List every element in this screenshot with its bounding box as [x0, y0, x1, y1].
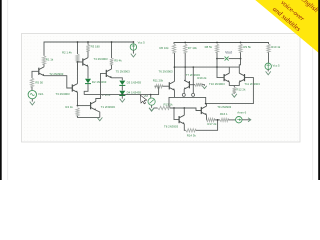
node R7 wire crossing — [184, 66, 186, 68]
wire R12 to ground — [233, 92, 235, 95]
wire T2 emitter to T3 base — [44, 76, 72, 88]
label Vin1 — [38, 92, 44, 96]
wire T8 base drop — [174, 108, 179, 120]
svg-text:T10 2N3903: T10 2N3903 — [209, 82, 225, 86]
resistor R7 — [184, 44, 187, 53]
wire R2 bottom to T3 collector — [77, 62, 79, 70]
right faint app edge — [311, 0, 314, 180]
wire R8 to T10 collector — [217, 59, 229, 74]
resistor R19 horizontal — [195, 83, 202, 86]
label R5 50 — [35, 81, 43, 85]
source Vcc2 — [265, 63, 271, 69]
svg-text:Amm 6: Amm 6 — [237, 111, 246, 115]
voltmeter VM1 — [148, 98, 155, 105]
svg-text:R16 1: R16 1 — [220, 112, 228, 116]
wire T4 base — [78, 61, 83, 63]
label net Vin1 mid — [102, 93, 111, 97]
node rail-R3 — [87, 41, 89, 43]
wire bias up to R11 — [151, 86, 159, 94]
transistor T10 — [224, 73, 229, 82]
label T8 2N3903 — [164, 125, 178, 129]
svg-text:R12 2k: R12 2k — [236, 88, 246, 92]
transistor T5 — [106, 69, 111, 78]
wire T11 emitter join — [234, 82, 239, 85]
node rail-R7 — [184, 42, 186, 44]
wire R9 to T11 collector — [239, 59, 240, 74]
wire rail to R5b — [111, 42, 113, 58]
label Amm 6 — [237, 111, 246, 115]
wire VM drop — [150, 95, 152, 98]
right black bar — [318, 0, 320, 180]
wire net to bubble B — [192, 67, 194, 93]
probe X Vout — [225, 57, 229, 61]
wire ammeter output arrow — [242, 119, 250, 121]
wire D3 to D4 — [121, 86, 123, 91]
wire R13 to T8/T9 — [170, 108, 201, 111]
label Vout — [225, 50, 232, 54]
label T6 2N3903 — [159, 69, 173, 73]
label T9 2N3903 — [217, 105, 231, 109]
ground below R19 — [202, 86, 206, 89]
wire R5 to Vin1 — [31, 87, 33, 90]
label T5 2N3903 — [116, 70, 130, 74]
resistor R11 horizontal — [155, 85, 163, 88]
resistor R2 — [76, 54, 79, 62]
wire T7 base to R19 — [189, 84, 195, 86]
wire T2 base to R5 — [32, 71, 39, 78]
label R4 1k — [65, 105, 73, 109]
label T4 2N3903 — [94, 57, 108, 61]
svg-text:T9 2N3903: T9 2N3903 — [217, 105, 231, 109]
transistor T3 — [72, 84, 77, 93]
resistor R1 — [42, 56, 45, 65]
resistor R6 — [172, 44, 175, 53]
label R17 2k — [207, 122, 217, 126]
label R10 1k — [271, 45, 281, 49]
left faint app edge — [6, 0, 9, 180]
page background — [0, 0, 320, 180]
svg-text:R5 4k: R5 4k — [114, 58, 122, 62]
svg-text:R17 2k: R17 2k — [207, 122, 217, 126]
transistor T8 — [179, 115, 184, 124]
node T4 base — [77, 61, 79, 63]
wire T10 base from bus — [217, 67, 224, 78]
label T11 2N3903 — [244, 82, 260, 86]
label R9 5k — [243, 45, 251, 49]
wire R17 to R16 — [215, 119, 220, 121]
node rail-R8 — [216, 42, 218, 44]
node Vout right — [240, 58, 242, 60]
svg-text:R19 2k: R19 2k — [197, 76, 207, 80]
svg-text:R14 3k: R14 3k — [187, 133, 197, 137]
transistor T11 — [239, 73, 244, 82]
svg-text:R11 20k: R11 20k — [153, 78, 164, 82]
node bus R8 join — [216, 66, 218, 68]
wire Vout left segment — [217, 58, 224, 60]
wire R9 bottom — [240, 52, 242, 58]
node T6 collector — [174, 66, 176, 68]
ground below D4 — [120, 99, 125, 102]
label T3 2N3903 — [56, 92, 70, 96]
wire long collector bus — [175, 66, 240, 68]
node D4 junction — [121, 94, 123, 96]
node rail-R9 — [240, 42, 242, 44]
wire T5 base down — [96, 73, 107, 98]
label D3 1N3493 — [127, 81, 142, 85]
connector bubble A — [182, 93, 185, 96]
wire T6 emitter to bus — [174, 90, 176, 97]
label R2 1.4k — [62, 50, 72, 54]
svg-text:R6 10k: R6 10k — [160, 46, 170, 50]
node R16 junction — [217, 119, 219, 121]
resistor R5 — [30, 78, 33, 87]
wire T1 collector up — [96, 99, 101, 102]
wire T8 collector up — [183, 108, 185, 115]
svg-text:R4 1k: R4 1k — [65, 105, 73, 109]
resistor R13 horizontal — [158, 106, 171, 109]
svg-text:R1 1k: R1 1k — [46, 57, 54, 61]
svg-text:R13 1k: R13 1k — [164, 102, 174, 106]
wire D2 bottom jog — [84, 84, 88, 95]
wire R16 to ammeter — [228, 119, 235, 121]
wire T1 emitter to ground — [96, 110, 100, 117]
resistor R10 — [267, 44, 270, 52]
svg-text:VM: VM — [144, 94, 149, 98]
label D2 1N3493 — [92, 80, 107, 84]
svg-text:R5 50: R5 50 — [35, 81, 43, 85]
resistor R8 — [215, 44, 218, 52]
wire T5 emitter to D3 — [112, 78, 123, 81]
mouse cursor — [140, 95, 146, 104]
svg-text:R2 1.4k: R2 1.4k — [62, 50, 72, 54]
svg-text:R9 5k: R9 5k — [243, 45, 251, 49]
wire T7 emitter to bubble A — [183, 89, 185, 93]
wire T3 emitter down — [77, 92, 79, 105]
label T2 2N3903 — [49, 72, 63, 76]
ammeter Amm6 — [236, 117, 242, 123]
wire to T1 base — [78, 105, 91, 107]
wire Vin1 to ground — [31, 99, 33, 102]
ground below Vcc2 — [266, 71, 271, 74]
label Vcc 5 left — [138, 41, 146, 45]
node T9 collector join — [205, 103, 207, 105]
node Vout left — [216, 58, 218, 60]
svg-text:Vcc 5: Vcc 5 — [138, 41, 146, 45]
svg-text:D4 1N3493: D4 1N3493 — [127, 91, 142, 95]
label R6 10k — [160, 46, 170, 50]
label Vcc 5 right — [273, 63, 281, 67]
wire R5b to T5 collector — [111, 65, 113, 69]
wire gnd to R13 — [154, 107, 158, 109]
left black bar — [0, 0, 2, 180]
node R13 junction — [173, 107, 175, 109]
wire Vout right segment — [229, 58, 241, 60]
label R13 1k — [164, 102, 174, 106]
label R16 1 — [220, 112, 228, 116]
wire R19 to ground — [202, 85, 205, 86]
ground below T1 — [97, 117, 102, 120]
wire D4 to ground — [121, 96, 123, 99]
node T8 collector junction — [183, 107, 185, 109]
diode D4 — [119, 91, 125, 96]
wire T3 collector — [77, 62, 79, 84]
svg-text:T3 2N3903: T3 2N3903 — [56, 92, 70, 96]
resistor R9 — [239, 44, 242, 52]
wire R11 to T6 base — [163, 85, 170, 87]
wire R7 to T7 collector — [184, 53, 185, 80]
wire VCC right rail — [174, 43, 269, 45]
ground below R12 — [232, 94, 237, 97]
svg-text:R7 10k: R7 10k — [188, 46, 198, 50]
node T3 emitter R4 — [77, 105, 79, 107]
wire Vcc2 to ground — [267, 70, 269, 72]
label R19 2k — [197, 76, 207, 80]
node VM junction — [150, 94, 152, 96]
resistor R16 horizontal — [220, 118, 228, 121]
svg-text:R8 5k: R8 5k — [205, 45, 213, 49]
transistor T6 — [169, 81, 174, 90]
resistor R4 — [76, 108, 79, 116]
label T10 2N3903 — [209, 82, 225, 86]
resistor R12 — [233, 87, 236, 93]
diode D2 — [85, 79, 91, 84]
wire rail to R2 — [77, 42, 79, 54]
schematic canvas — [22, 34, 301, 143]
wire T6 collector up — [174, 53, 176, 81]
wire R1 to T2 collector — [43, 64, 45, 67]
svg-text:D2 1N3493: D2 1N3493 — [92, 80, 107, 84]
wire R14 to R17 node — [196, 120, 218, 130]
resistor R5b 4k — [110, 58, 113, 65]
wire R3 to T4 collector — [87, 52, 89, 58]
wire R10 to Vcc2 — [268, 52, 270, 63]
wire T8 emitter to R14 — [184, 124, 185, 130]
label D4 1N3493 — [127, 91, 142, 95]
svg-text:R10 1k: R10 1k — [271, 45, 281, 49]
svg-text:T4 2N3903: T4 2N3903 — [94, 57, 108, 61]
wire output loop — [169, 78, 253, 108]
node bubble B net — [192, 66, 194, 68]
label T1 2N3903 — [101, 105, 115, 109]
connector bubble B — [192, 93, 195, 96]
svg-text:T8 2N3903: T8 2N3903 — [164, 125, 178, 129]
svg-text:T1 2N3903: T1 2N3903 — [101, 105, 115, 109]
svg-text:T11 2N3903: T11 2N3903 — [244, 82, 260, 86]
label R11 20k — [153, 78, 164, 82]
label T7 2N3903 — [186, 73, 200, 77]
source Vin1 — [28, 90, 36, 98]
wire bias node bus — [84, 94, 151, 96]
wire R8 bottom — [216, 52, 218, 58]
wire Vcc1 to ground — [132, 50, 134, 53]
label VM1 — [144, 94, 149, 98]
transistor T4 — [83, 58, 88, 67]
svg-text:T5 2N3903: T5 2N3903 — [116, 70, 130, 74]
wire rail into Vcc1 — [132, 42, 134, 43]
ground below Vin1 — [30, 102, 35, 105]
transistor T9 — [201, 106, 206, 115]
node rail-R2 — [77, 41, 79, 43]
svg-text:D3 1N3493: D3 1N3493 — [127, 81, 142, 85]
wire T9 collector up — [206, 104, 208, 107]
source Vcc1 — [130, 44, 136, 50]
resistor R17 horizontal — [207, 118, 215, 121]
label R1 1k — [46, 57, 54, 61]
wire VCC left rail — [44, 42, 133, 56]
svg-text:T6 2N3903: T6 2N3903 — [159, 69, 173, 73]
svg-text:R3 180: R3 180 — [91, 44, 101, 48]
ribbon text — [271, 0, 320, 33]
wire VM to ground — [151, 105, 153, 107]
ground left of R13 — [149, 108, 154, 111]
ground below Vcc1 — [131, 54, 136, 57]
wire T9 emitter down — [206, 115, 208, 120]
label R8 5k — [205, 45, 213, 49]
resistor R14 horizontal — [186, 129, 196, 132]
node rail Vcc1 — [133, 41, 135, 43]
label R3 180 — [91, 44, 101, 48]
wire T10 emitter join — [229, 82, 234, 85]
diode D3 — [119, 81, 125, 86]
transistor T7 — [184, 80, 189, 89]
label R12 2k — [236, 88, 246, 92]
node rail-R5b — [111, 41, 113, 43]
svg-text:Vcc 5: Vcc 5 — [273, 63, 281, 67]
transistor T2 — [39, 67, 44, 76]
arrowhead output — [248, 118, 251, 122]
wire T4 emitter to D2 — [87, 66, 89, 78]
wire rail to R3 — [87, 42, 89, 45]
label R14 3k — [187, 133, 197, 137]
transistor T1 — [91, 101, 96, 110]
label R5 4k — [114, 58, 122, 62]
ribbon yellow corner — [255, 0, 320, 54]
svg-text:Vin1: Vin1 — [38, 92, 44, 96]
wire emitters to R12 — [233, 85, 235, 87]
svg-text:+ Vin1: + Vin1 — [102, 93, 111, 97]
ground below VM — [149, 108, 154, 111]
label R7 10k — [188, 46, 198, 50]
svg-text:Vout: Vout — [225, 50, 232, 54]
resistor R3 — [86, 45, 89, 52]
wire R4 bottom — [78, 116, 100, 117]
